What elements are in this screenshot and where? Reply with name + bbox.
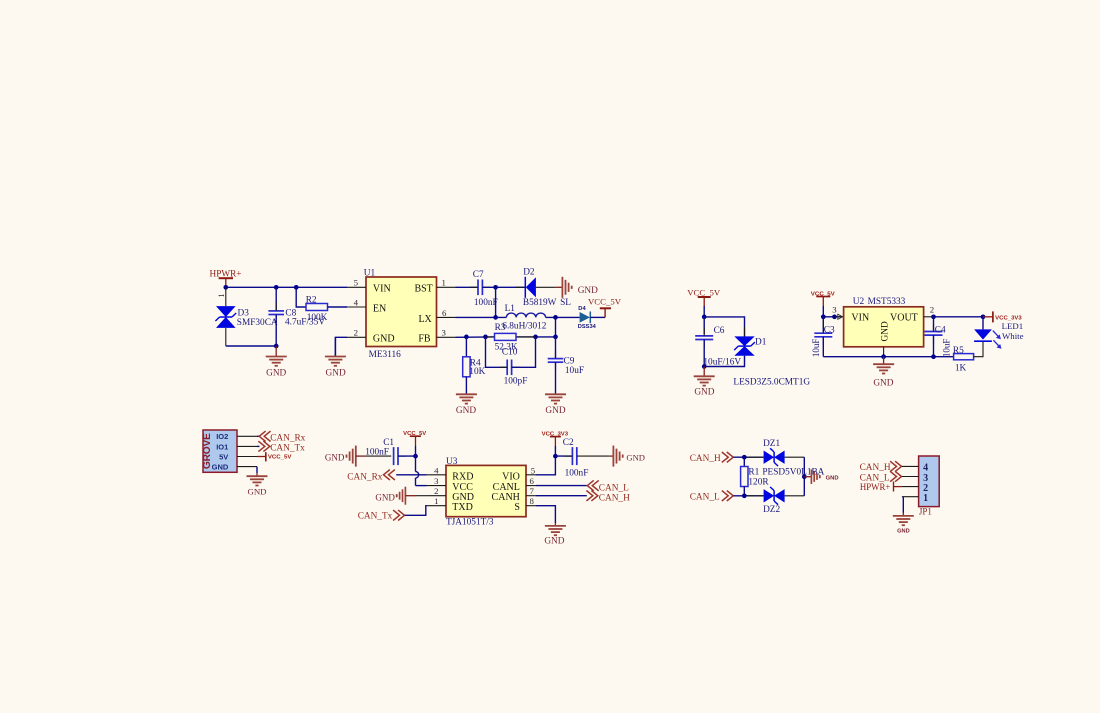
label CAN_L at network (690, 493, 720, 503)
svg-text:D3: D3 (238, 308, 250, 318)
ground GND rotated at U3 pin2 (396, 487, 406, 505)
svg-text:120R: 120R (748, 477, 769, 487)
pin stub 2 JP1 (902, 486, 919, 488)
node junction C8 top (274, 285, 279, 290)
svg-text:7: 7 (530, 486, 535, 496)
wire C6 top (703, 317, 705, 334)
svg-text:GND: GND (212, 462, 229, 471)
pin 6 stub LX (437, 316, 456, 318)
label C8 4.7uF/35V (285, 308, 325, 327)
wire C8 bottom (275, 315, 277, 346)
wire C3 top (822, 317, 824, 333)
ground GND rotated at network (804, 476, 811, 478)
capacitor C2 (572, 447, 576, 465)
wire C8 top (275, 287, 277, 311)
label CAN_H at JP1 (860, 463, 891, 473)
wire CANL to port (536, 485, 587, 487)
wire VCC node down with hop over RXD (416, 456, 419, 486)
label LED1 White (1002, 321, 1024, 341)
svg-text:TXD: TXD (452, 502, 473, 513)
label C7 100nF (473, 270, 498, 308)
pin 6 stub CANL (526, 485, 536, 487)
port CAN_L chevron at JP1 (890, 471, 901, 481)
ground GND below U2 (883, 357, 885, 365)
wire IO2 to CAN_Rx (257, 435, 260, 437)
label D4 DSS34 (578, 306, 596, 330)
LED LED1 (974, 317, 1001, 349)
svg-text:R3: R3 (495, 323, 506, 333)
svg-text:VCC_5V: VCC_5V (588, 296, 622, 306)
node junction VIO/C2 (553, 454, 558, 459)
ground GND rotated right of C2 (609, 455, 613, 457)
svg-text:LED1: LED1 (1002, 321, 1024, 331)
pin stub 3 JP1 (902, 476, 919, 478)
svg-text:D1: D1 (755, 337, 767, 347)
wire GND to C1 (356, 455, 366, 457)
svg-text:D2: D2 (523, 268, 535, 278)
svg-text:R2: R2 (306, 295, 317, 305)
svg-text:4: 4 (354, 297, 359, 307)
wire C1 to VCC node (398, 455, 416, 457)
wire C7 to D2 (482, 286, 525, 288)
node junction R4 tap (464, 335, 469, 340)
wire C10 branch left (486, 337, 508, 367)
ground GND below U1 pin2 (334, 337, 336, 356)
pin stub 1 JP1 (902, 496, 919, 498)
svg-text:JP1: JP1 (919, 507, 932, 517)
power port VCC_3V3 at U3 (542, 431, 569, 446)
svg-text:GND: GND (626, 452, 645, 462)
pin GND stub U2 (883, 347, 885, 357)
pin stub IO2 (237, 435, 257, 437)
node junction C3 tap (821, 314, 826, 319)
node junction HPWR+/D3 (223, 285, 228, 290)
svg-text:CAN_Rx: CAN_Rx (347, 472, 382, 482)
svg-text:100pF: 100pF (504, 377, 528, 387)
wire LX to L1 (456, 316, 507, 318)
label C6 10uF/16V (703, 326, 741, 367)
svg-text:L1: L1 (505, 304, 516, 314)
svg-text:GND: GND (326, 368, 346, 378)
svg-text:CAN_H: CAN_H (599, 493, 630, 503)
port CAN_Rx chevron (259, 431, 270, 441)
wire R4 top (465, 337, 467, 357)
svg-text:VIN: VIN (851, 313, 869, 324)
wire R2 to EN pin (328, 306, 348, 308)
wire top rail HPWR+ to VIN (226, 286, 347, 288)
capacitor C7 (478, 280, 482, 296)
node junction C9 tap (553, 335, 558, 340)
power port VCC_5V at GROVE (257, 452, 292, 461)
wire U2 bottom rail (823, 356, 953, 358)
svg-text:CAN_L: CAN_L (599, 483, 629, 493)
svg-text:GND: GND (247, 486, 266, 496)
wire GND pin down (256, 467, 258, 474)
wire VCC port down to node (415, 446, 417, 456)
svg-text:5: 5 (531, 465, 536, 475)
svg-text:ME3116: ME3116 (369, 350, 402, 360)
svg-text:10uF: 10uF (811, 339, 821, 358)
svg-text:DZ1: DZ1 (763, 439, 780, 449)
svg-text:GND: GND (325, 453, 345, 463)
pin 3 arrow into VIN (838, 314, 843, 319)
wire GND port to pin2 (405, 495, 415, 497)
capacitor C1 (394, 447, 398, 465)
svg-text:6.8uH/3012: 6.8uH/3012 (502, 321, 547, 331)
wire R1 bottom (743, 487, 745, 496)
svg-text:3: 3 (434, 476, 439, 486)
wire BST node down to LX (495, 287, 497, 317)
node junction C1/VCC_5V (413, 454, 418, 459)
ground GND rotated left of C1 (346, 446, 356, 467)
wire L1 to D4 (546, 316, 580, 318)
port CAN_L chevron at U3 (587, 480, 598, 490)
connector JP1 body (919, 456, 940, 507)
svg-text:SL: SL (560, 298, 571, 308)
wire EN branch down to R2 (296, 287, 306, 307)
wire right rail vertical (803, 457, 805, 496)
pin 2 stub GND U3 (427, 495, 447, 497)
svg-text:VOUT: VOUT (890, 313, 918, 324)
label CAN_L at JP1 (860, 473, 890, 483)
label CAN_Rx at GROVE (270, 433, 305, 443)
svg-text:TJA1051T/3: TJA1051T/3 (446, 518, 494, 528)
svg-text:S: S (514, 502, 520, 513)
ground GND below R4 (456, 394, 477, 403)
wire D4 to VCC_5V (590, 316, 605, 318)
wire R5 to LED (974, 342, 983, 357)
ground GND below S pin (554, 523, 556, 526)
wire DZ2 to right rail (785, 495, 805, 497)
resistor R3 (486, 336, 495, 338)
wire LX node down to FB rail (555, 317, 557, 336)
svg-text:PESD5V0L1BA: PESD5V0L1BA (762, 468, 824, 478)
port CAN_H chevron at U3 (586, 491, 597, 501)
pin 2 stub VOUT (924, 316, 934, 318)
capacitor C9 (548, 359, 564, 363)
resistor R4 (463, 357, 470, 377)
ground GND below C9 (545, 394, 566, 403)
diode D1 TVS LESD3Z (744, 326, 746, 336)
svg-text:2: 2 (354, 328, 358, 338)
wire CAN_Tx to TXD pin (405, 506, 427, 516)
svg-text:IO1: IO1 (216, 442, 228, 451)
capacitor C3 (814, 333, 832, 337)
label R4 10K (469, 358, 485, 376)
wire node to C2 (555, 455, 572, 457)
svg-text:CAN_L: CAN_L (860, 473, 890, 483)
port CAN_Tx chevron (258, 441, 269, 451)
svg-text:VCC_5V: VCC_5V (268, 455, 292, 461)
diode D3 TVS (215, 306, 236, 328)
svg-text:VCC_5V: VCC_5V (687, 287, 721, 297)
svg-text:GND: GND (375, 492, 395, 502)
label D3 SMF30CA (237, 308, 278, 328)
power port VCC_5V at D1 (687, 287, 721, 306)
pin 3 stub VCC (427, 485, 447, 487)
connector GROVE body (203, 430, 237, 472)
svg-text:CAN_L: CAN_L (690, 493, 720, 503)
wire VIO up to VCC_3V3 node (536, 456, 555, 475)
svg-text:C6: C6 (714, 326, 725, 336)
wire VCC_3V3 down (554, 446, 556, 456)
label CAN_Tx at GROVE (270, 444, 305, 454)
node junction R1 top (742, 455, 747, 460)
svg-text:3: 3 (832, 304, 837, 314)
svg-text:1: 1 (442, 278, 446, 288)
capacitor C6 (695, 336, 713, 340)
svg-text:D4: D4 (578, 306, 585, 312)
wire CAN_L to DZ2 (733, 495, 763, 497)
node junction C8/D3 bottom (274, 344, 279, 349)
svg-text:C10: C10 (502, 348, 518, 358)
svg-text:R1: R1 (748, 468, 759, 478)
svg-text:1K: 1K (955, 363, 967, 373)
op-amp U2 body (844, 307, 924, 347)
wire C4 bottom (933, 335, 935, 357)
wire into VCC pin (416, 485, 427, 487)
node junction C4 tap (931, 314, 936, 319)
svg-text:VIN: VIN (373, 283, 391, 294)
diode D4 DSS34 (580, 312, 591, 324)
svg-text:DSS34: DSS34 (578, 324, 596, 330)
svg-text:R5: R5 (953, 346, 964, 356)
svg-text:GND: GND (456, 406, 476, 416)
svg-text:10uF: 10uF (565, 366, 584, 376)
svg-text:GND: GND (266, 368, 286, 378)
svg-text:GND: GND (544, 537, 564, 547)
wire JP1 pin1 to ground (902, 497, 904, 513)
svg-text:MST5333: MST5333 (868, 297, 906, 307)
wire DZ1 to right rail (785, 456, 805, 458)
svg-text:1: 1 (923, 493, 928, 504)
svg-text:U1: U1 (364, 269, 376, 279)
svg-text:6: 6 (530, 476, 535, 486)
inductor L1 (506, 313, 545, 317)
wire VOUT rail (934, 316, 984, 318)
port CAN_Tx chevron at U3 (393, 510, 404, 520)
label C1 100nF (365, 438, 394, 457)
power port VCC_5V output (588, 296, 622, 317)
pin 2 stub GND (347, 336, 366, 338)
port CAN_H chevron at network (722, 452, 733, 462)
power port HPWR+ at JP1 (860, 482, 902, 493)
node wire end dot (832, 314, 837, 319)
svg-text:GND: GND (578, 286, 598, 296)
svg-text:100K: 100K (307, 313, 328, 323)
node junction U2 GND (881, 354, 886, 359)
svg-text:HPWR+: HPWR+ (860, 483, 891, 493)
port CAN_Rx chevron at U3 (384, 470, 395, 480)
svg-text:C7: C7 (473, 270, 484, 280)
svg-text:GND: GND (897, 529, 910, 535)
power port HPWR+ (210, 270, 242, 288)
pin 5 stub VIN (347, 286, 366, 288)
label R5 1K (953, 346, 967, 374)
pin 1 stub TXD (427, 505, 447, 507)
svg-text:10K: 10K (469, 367, 485, 377)
pin 8 stub S (526, 505, 536, 507)
resistor R1 (741, 467, 748, 487)
wire BST to C7 (456, 286, 478, 288)
op-amp U1 body (366, 277, 437, 347)
label L1 6.8uH/3012 (502, 304, 547, 331)
capacitor C4 (925, 332, 943, 336)
wire R4 bottom (465, 377, 467, 395)
capacitor C10 (507, 360, 511, 376)
svg-text:GND: GND (545, 406, 565, 416)
wire D3 bottom to C8 bottom rail (225, 328, 227, 346)
svg-text:FB: FB (418, 333, 431, 344)
wire C2 to GND (577, 455, 609, 457)
svg-text:8: 8 (530, 496, 535, 506)
svg-text:SMF30CA: SMF30CA (237, 318, 278, 328)
pin 5 stub VIO (526, 474, 536, 476)
diode DZ2 TVS (764, 487, 785, 505)
wire FB rail (456, 336, 556, 338)
svg-text:10uF/16V: 10uF/16V (703, 357, 741, 367)
port CAN_H chevron at JP1 (890, 461, 901, 471)
wire D2 anode to GND (536, 286, 555, 288)
svg-text:100nF: 100nF (365, 447, 389, 457)
svg-text:EN: EN (373, 304, 386, 315)
svg-text:IO2: IO2 (216, 432, 228, 441)
svg-text:3: 3 (442, 328, 447, 338)
wire C6 bottom (703, 340, 705, 367)
svg-text:U3: U3 (446, 457, 458, 467)
svg-text:LX: LX (418, 314, 432, 325)
svg-text:GND: GND (880, 321, 890, 341)
wire C10 branch right (512, 337, 536, 367)
label C10 100pF (502, 348, 527, 387)
svg-text:GND: GND (694, 388, 714, 398)
svg-text:VIO: VIO (502, 471, 520, 482)
wire C9 bottom (555, 362, 557, 394)
label R2 100K (306, 295, 328, 323)
wire CANH to port (536, 495, 587, 497)
wire CAN_H to DZ1 (733, 456, 763, 458)
svg-text:CAN_H: CAN_H (860, 463, 891, 473)
svg-text:5: 5 (354, 278, 359, 288)
op-amp U3 body (446, 465, 526, 516)
wire C3 bottom (822, 337, 824, 357)
svg-text:6: 6 (442, 308, 447, 318)
wire C4 top (933, 317, 935, 332)
svg-text:LESD3Z5.0CMT1G: LESD3Z5.0CMT1G (733, 378, 810, 388)
node junction R1 bottom (742, 493, 747, 498)
diode D2 B5819W (525, 277, 536, 298)
node junction on LX line (493, 315, 498, 320)
wire VCC_5V to VIN (823, 306, 843, 317)
svg-text:C2: C2 (563, 438, 574, 448)
pin 4 stub RXD (427, 474, 447, 476)
label C2 100nF (563, 438, 589, 478)
svg-text:B5819W: B5819W (523, 298, 557, 308)
svg-text:White: White (1002, 331, 1024, 341)
svg-text:100nF: 100nF (565, 468, 589, 478)
pin stub IO1 (237, 445, 257, 447)
wire across to D1 (704, 317, 744, 337)
pin stub 4 JP1 (902, 465, 919, 467)
pin 4 stub EN (347, 306, 366, 308)
svg-text:U2: U2 (853, 297, 865, 307)
svg-text:5V: 5V (219, 452, 228, 461)
node junction C10 left (483, 335, 488, 340)
svg-text:BST: BST (414, 283, 432, 294)
svg-text:1: 1 (217, 294, 226, 298)
port CAN_L chevron at network (722, 491, 733, 501)
svg-text:1: 1 (434, 496, 438, 506)
resistor R2 (306, 304, 328, 311)
wire VCC_5V down to node (703, 306, 705, 317)
capacitor C8 (268, 311, 284, 315)
node junction C6 top (702, 315, 707, 320)
wire IO1 to CAN_Tx (257, 445, 260, 447)
node junction LX output (553, 315, 558, 320)
pin 1 stub BST (437, 286, 456, 288)
label R1 120R (748, 468, 769, 488)
diode DZ1 TVS (764, 448, 785, 466)
ground GND below JP1 (902, 513, 904, 516)
node junction C7/D2/LX drop (493, 285, 498, 290)
label R3 52.3K (495, 323, 518, 352)
node junction EN branch (294, 285, 299, 290)
wire R1 top (743, 457, 745, 466)
label D2 B5819W SL (523, 268, 571, 309)
svg-text:2: 2 (434, 486, 438, 496)
svg-text:C4: C4 (935, 325, 946, 335)
svg-text:DZ2: DZ2 (763, 505, 780, 515)
node junction C6 bottom (702, 364, 707, 369)
ground GND below C6 (703, 367, 705, 377)
svg-text:CAN_Tx: CAN_Tx (270, 444, 305, 454)
label CAN_H at network (690, 454, 721, 464)
label C9 10uF (564, 357, 585, 376)
wire C9 top (555, 337, 557, 359)
svg-text:GND: GND (873, 378, 893, 388)
wire CAN_Rx to RXD pin (396, 474, 426, 476)
ground GND below C8 (275, 346, 277, 357)
power port VCC_5V at U3 (403, 431, 426, 446)
svg-text:CAN_Rx: CAN_Rx (270, 433, 305, 443)
svg-text:4: 4 (434, 465, 439, 475)
pin 7 stub CANH (526, 495, 536, 497)
node junction GND tap (802, 474, 807, 479)
svg-text:2: 2 (930, 304, 934, 314)
ground GND below GROVE (256, 473, 258, 476)
wire U1 GND pin to ground (335, 337, 347, 356)
svg-text:GND: GND (826, 476, 839, 482)
pin 3 stub FB (437, 336, 456, 338)
svg-text:C3: C3 (824, 325, 835, 335)
power port VCC_3V3 (983, 311, 1022, 322)
ground GND right of D2 (555, 286, 562, 288)
node junction C4 bottom (931, 354, 936, 359)
pin stub 5V (237, 456, 257, 458)
svg-text:10uF: 10uF (942, 339, 952, 358)
svg-text:VCC_3V3: VCC_3V3 (995, 316, 1022, 322)
resistor R5 (954, 354, 974, 360)
pin stub GND (237, 466, 257, 468)
wire D1 bottom to node (704, 356, 744, 367)
power port VCC_5V at U2 (811, 291, 835, 306)
node junction C10 right (533, 335, 538, 340)
svg-text:CAN_H: CAN_H (690, 454, 721, 464)
svg-text:GND: GND (373, 333, 395, 344)
svg-text:RXD: RXD (452, 471, 473, 482)
svg-text:CAN_Tx: CAN_Tx (358, 512, 393, 522)
node junction LED tap (981, 314, 986, 319)
